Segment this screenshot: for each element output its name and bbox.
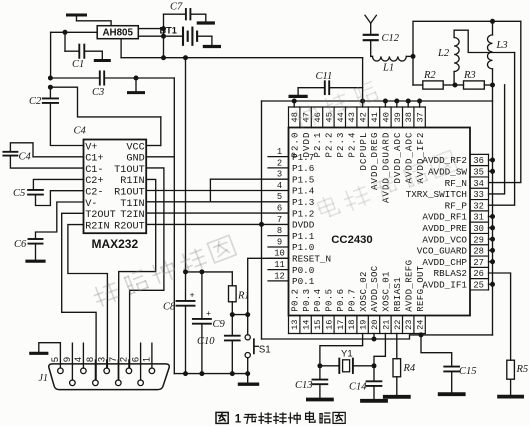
wire (BT1 node to rail) xyxy=(163,36,165,58)
svg-text:13: 13 xyxy=(290,320,300,330)
node (pin48 supply) xyxy=(292,99,297,104)
connector J1 (DB9) xyxy=(39,364,170,390)
svg-text:AVDD_CHP: AVDD_CHP xyxy=(422,257,467,268)
ground (C3) xyxy=(129,78,144,93)
svg-text:P0.2: P0.2 xyxy=(290,289,300,312)
svg-text:R5: R5 xyxy=(516,364,529,375)
svg-text:21: 21 xyxy=(381,320,391,330)
svg-text:17: 17 xyxy=(336,320,346,330)
svg-text:P2.4: P2.4 xyxy=(347,132,357,158)
svg-text:7: 7 xyxy=(277,215,282,225)
svg-text:2: 2 xyxy=(119,357,129,362)
svg-text:5: 5 xyxy=(50,357,60,362)
svg-text:BT1: BT1 xyxy=(160,25,177,35)
svg-text:CC2430: CC2430 xyxy=(331,234,372,246)
wire (R2IN to J1 pin3) xyxy=(68,225,108,368)
svg-text:DVDD_ADC: DVDD_ADC xyxy=(393,132,403,184)
svg-text:C1-: C1- xyxy=(85,165,103,176)
wire (VCC drop to C8 node) xyxy=(185,58,187,272)
wire (jog pin3-pin5) xyxy=(210,179,288,202)
svg-text:RESET_N: RESET_N xyxy=(292,254,331,265)
CC2430 right pin names xyxy=(406,155,468,290)
svg-text:38: 38 xyxy=(404,112,414,122)
svg-text:V-: V- xyxy=(85,199,97,210)
node (C8 top) xyxy=(183,269,188,274)
svg-text:T1IN: T1IN xyxy=(120,199,144,210)
svg-text:7: 7 xyxy=(108,357,118,362)
svg-text:C5: C5 xyxy=(13,188,25,199)
svg-text:14: 14 xyxy=(302,320,312,330)
wire (T2IN to P1.2) xyxy=(146,212,288,214)
node (pin28 bus) xyxy=(489,248,496,253)
capacitor C15 xyxy=(421,335,477,393)
svg-text:20: 20 xyxy=(370,320,380,330)
svg-text:AVDD_SOC: AVDD_SOC xyxy=(370,265,380,312)
svg-text:RBLAS2: RBLAS2 xyxy=(434,268,467,279)
svg-text:AH805: AH805 xyxy=(102,28,133,39)
svg-text:P1.3: P1.3 xyxy=(292,197,314,208)
svg-text:R4: R4 xyxy=(403,363,416,374)
svg-text:8: 8 xyxy=(85,357,95,362)
svg-text:P2.2: P2.2 xyxy=(325,132,335,158)
battery BT1 xyxy=(160,25,212,44)
svg-text:P2.3: P2.3 xyxy=(336,132,346,158)
J1 pin stubs and numbers xyxy=(50,343,152,380)
wire (R2OUT to DVDD pin) xyxy=(146,223,288,225)
svg-text:29: 29 xyxy=(473,235,484,245)
svg-text:C2-: C2- xyxy=(85,188,103,199)
CC2430 top pin cells (48-37) xyxy=(289,101,426,128)
wire (R1OUT to P1.4) xyxy=(146,190,288,192)
svg-text:43: 43 xyxy=(347,112,357,122)
svg-text:+: + xyxy=(190,290,195,300)
svg-text:C10: C10 xyxy=(197,336,215,347)
inductor L1 xyxy=(373,56,414,73)
node (pin31 bus) xyxy=(489,214,496,219)
resistor R1 xyxy=(229,272,250,315)
svg-text:P0.1: P0.1 xyxy=(292,276,315,287)
capacitor C7 xyxy=(164,2,206,20)
node (pin27 bus) xyxy=(489,259,496,264)
node (left net top) xyxy=(48,76,53,81)
wire (AH805 out lower) xyxy=(138,35,163,37)
svg-text:C9: C9 xyxy=(213,319,226,330)
node (L1 out) xyxy=(411,54,416,59)
svg-text:P1.4: P1.4 xyxy=(292,186,315,197)
IC U1 CC2430 body xyxy=(289,128,471,316)
ground (C1) xyxy=(95,51,109,60)
CC2430 left pin names xyxy=(292,152,331,287)
wire (ground rail) xyxy=(174,373,247,375)
svg-text:L2: L2 xyxy=(437,48,450,59)
capacitor C9 (electrolytic) xyxy=(193,272,226,374)
svg-text:C1+: C1+ xyxy=(85,154,103,165)
ground (J1) xyxy=(31,352,47,355)
node (pin20 tap) xyxy=(372,337,377,342)
CC2430 top pin names xyxy=(290,132,425,204)
node (pin42 supply) xyxy=(360,99,365,104)
svg-text:3: 3 xyxy=(97,357,107,362)
svg-text:R2: R2 xyxy=(423,70,436,81)
ground (BT1) xyxy=(204,36,219,46)
svg-text:37: 37 xyxy=(416,112,426,122)
svg-text:T2IN: T2IN xyxy=(120,210,144,221)
svg-text:9: 9 xyxy=(62,357,72,362)
antenna E1 xyxy=(365,15,376,35)
capacitor C4 xyxy=(3,143,83,168)
node (L3 top) xyxy=(490,19,495,24)
wire (T1IN to P1.3) xyxy=(146,201,288,203)
svg-text:J1: J1 xyxy=(39,373,48,384)
svg-text:XOSC_02: XOSC_02 xyxy=(359,271,369,312)
node (Y1 left) xyxy=(317,363,322,368)
resistor R3 xyxy=(463,70,493,89)
svg-text:R1IN: R1IN xyxy=(120,176,144,187)
ground (above AH805) xyxy=(68,15,86,21)
svg-text:11: 11 xyxy=(274,260,285,270)
svg-text:33: 33 xyxy=(473,190,484,200)
svg-text:2: 2 xyxy=(277,158,282,168)
watermark xyxy=(21,82,460,341)
wire (AH805 top pin to ground) xyxy=(77,21,112,26)
svg-text:9: 9 xyxy=(277,237,282,247)
wire (MAX232 GND to gnd drop) xyxy=(146,156,174,158)
node (C8 gnd) xyxy=(183,371,188,376)
wire (RF_N pin34) xyxy=(489,21,521,182)
resistor R4 xyxy=(393,334,416,396)
node (C9 gnd) xyxy=(199,371,204,376)
svg-text:30: 30 xyxy=(473,224,484,234)
resistor R5 xyxy=(507,360,528,395)
node (pin29 bus) xyxy=(489,237,496,242)
svg-text:P1.1: P1.1 xyxy=(292,231,315,242)
ground (C7) xyxy=(198,14,213,23)
wire (N1 up / top RF line) xyxy=(413,21,521,56)
node (pin36 bus) xyxy=(489,158,496,163)
svg-text:5: 5 xyxy=(277,192,282,202)
svg-text:36: 36 xyxy=(473,156,484,166)
svg-text:44: 44 xyxy=(336,112,346,122)
wire (R3 link) xyxy=(455,84,464,86)
svg-text:C2+: C2+ xyxy=(85,176,103,187)
capacitor C13 xyxy=(295,366,327,398)
capacitor C6 xyxy=(14,202,84,260)
wire (TXRX_SWITCH pin33) xyxy=(489,85,505,194)
wire (top pin supply line) xyxy=(262,100,493,102)
node (branch to VCC jog) xyxy=(48,85,53,90)
svg-text:P1.2: P1.2 xyxy=(292,208,314,219)
svg-text:C3: C3 xyxy=(92,87,104,98)
CC2430 left pin ladder (1-12) xyxy=(268,147,289,281)
wire (VCC jog) xyxy=(50,87,160,117)
ground (C13) xyxy=(308,398,332,402)
svg-text:AVDD_IF1: AVDD_IF1 xyxy=(422,280,467,291)
svg-text:18: 18 xyxy=(347,320,357,330)
wire (pin24 stub) xyxy=(420,334,421,335)
svg-text:VCC: VCC xyxy=(126,142,144,153)
svg-text:P0.3: P0.3 xyxy=(302,289,312,312)
wire (RF_P pin32) xyxy=(489,53,515,206)
CC2430 bottom pin cells (13-24) xyxy=(289,316,426,334)
svg-text:31: 31 xyxy=(473,213,484,223)
wire (RESET_N) xyxy=(248,258,289,314)
wire (GND drop right of MAX232) xyxy=(173,78,175,374)
svg-text:26: 26 xyxy=(473,269,484,279)
node (C9 top) xyxy=(199,269,204,274)
wire (AH805 out upper) xyxy=(138,28,163,30)
svg-text:C11: C11 xyxy=(316,71,333,82)
svg-text:MAX232: MAX232 xyxy=(91,237,138,251)
svg-text:6: 6 xyxy=(277,204,282,214)
ground (R4) xyxy=(385,395,409,399)
wire (R1 to reset line) xyxy=(232,312,250,317)
capacitor C3 xyxy=(92,71,174,98)
svg-text:S1: S1 xyxy=(259,344,271,355)
wire (bottom supply line) xyxy=(262,335,422,339)
inductor L2 xyxy=(437,30,515,85)
svg-text:1: 1 xyxy=(235,414,242,426)
ground (R5) xyxy=(499,395,522,399)
wire (T1OUT to J1 pin2) xyxy=(130,168,164,367)
IC U3 MAX232 xyxy=(74,126,147,251)
svg-text:C14: C14 xyxy=(349,382,367,393)
svg-text:AVDD_VCO: AVDD_VCO xyxy=(422,234,467,245)
svg-text:P1.0: P1.0 xyxy=(292,242,314,253)
wire (C8 node line) xyxy=(186,271,233,273)
svg-text:R1OUT: R1OUT xyxy=(114,188,145,199)
wire (pin20 stub) xyxy=(373,334,375,340)
svg-text:16: 16 xyxy=(324,320,334,330)
svg-text:25: 25 xyxy=(473,281,484,291)
crystal Y1 xyxy=(320,349,374,373)
svg-text:34: 34 xyxy=(473,179,484,189)
svg-text:15: 15 xyxy=(313,320,323,330)
svg-text:4: 4 xyxy=(73,357,83,362)
node (AH805 left / C1 tap) xyxy=(63,30,68,35)
svg-text:1: 1 xyxy=(142,357,152,362)
svg-text:AVDD_PRE: AVDD_PRE xyxy=(422,223,467,234)
node (R3/L3/bus) xyxy=(490,83,495,88)
svg-text:12: 12 xyxy=(274,271,285,281)
svg-text:AVDD_DGUARD: AVDD_DGUARD xyxy=(382,132,392,204)
node (Y1 right) xyxy=(372,363,377,368)
svg-text:VCO_GUARD: VCO_GUARD xyxy=(417,246,468,257)
svg-text:19: 19 xyxy=(359,320,369,330)
wire (left supply bus) xyxy=(261,101,263,339)
svg-text:P0.6: P0.6 xyxy=(336,289,346,312)
node (DVDD bus tap pin7) xyxy=(259,222,264,227)
capacitor C12 xyxy=(364,33,400,56)
svg-text:P0.0: P0.0 xyxy=(292,265,314,276)
svg-text:RF_P: RF_P xyxy=(445,200,468,211)
node (rail end) xyxy=(245,371,250,376)
wire (C2/C3 node line) xyxy=(50,77,99,79)
svg-text:23: 23 xyxy=(404,320,414,330)
svg-text:40: 40 xyxy=(381,112,391,122)
resistor R2 xyxy=(423,70,455,89)
svg-text:C12: C12 xyxy=(382,33,400,44)
svg-text:R2OUT: R2OUT xyxy=(114,221,145,232)
svg-text:3: 3 xyxy=(277,170,282,180)
node (C10 gnd) xyxy=(230,371,235,376)
capacitor C2 xyxy=(29,87,84,145)
svg-text:8: 8 xyxy=(277,226,282,236)
svg-text:C4: C4 xyxy=(74,126,87,137)
svg-text:32: 32 xyxy=(473,201,484,211)
svg-text:T1OUT: T1OUT xyxy=(114,165,145,176)
svg-text:22: 22 xyxy=(393,320,403,330)
ground (C11) xyxy=(290,95,306,98)
capacitor C11 xyxy=(298,71,363,95)
CC2430 bottom pin names xyxy=(290,260,425,312)
switch S1 xyxy=(245,315,271,374)
wire (R1IN to J1 pin7) xyxy=(119,179,156,379)
svg-text:T2OUT: T2OUT xyxy=(85,210,116,221)
wire (N1 down to R2) xyxy=(413,56,423,85)
svg-text:GND: GND xyxy=(126,154,144,165)
svg-text:1: 1 xyxy=(277,147,282,157)
svg-text:C1: C1 xyxy=(72,59,84,70)
svg-text:R3: R3 xyxy=(463,70,476,81)
svg-text:42: 42 xyxy=(359,112,369,122)
svg-text:P1.5: P1.5 xyxy=(292,174,314,185)
svg-text:P0.7: P0.7 xyxy=(347,289,357,312)
capacitor C14 xyxy=(349,366,381,399)
svg-text:P0.4: P0.4 xyxy=(313,289,323,312)
ground (rail) xyxy=(240,374,258,385)
node (VCC to C8 branch) xyxy=(183,55,188,60)
wire (RBLAS2 pin26 to R5) xyxy=(489,273,511,360)
node (rail tie) xyxy=(161,55,166,60)
svg-text:C13: C13 xyxy=(295,380,313,391)
wire (C7/BT1 tie) xyxy=(163,14,165,36)
svg-text:41: 41 xyxy=(370,112,380,122)
wire (XOSC_02 to crystal) xyxy=(320,334,363,363)
node (pin39 supply) xyxy=(394,99,399,104)
inductor L3 xyxy=(488,21,508,85)
ground (C6) xyxy=(27,260,44,263)
ground (C14) xyxy=(362,399,386,403)
node (C3 ground tap) xyxy=(134,76,139,81)
svg-text:C15: C15 xyxy=(459,366,477,377)
svg-text:27: 27 xyxy=(473,258,484,268)
svg-text:AVDD_REFG: AVDD_REFG xyxy=(404,260,414,312)
node (pin35 bus) xyxy=(489,169,496,174)
node (R2/R3/L2) xyxy=(453,83,458,88)
svg-text:V+: V+ xyxy=(85,142,97,153)
CC2430 right pin cells (36-25) xyxy=(470,154,489,290)
svg-text:10: 10 xyxy=(274,249,285,259)
caption text (Figure 1 wireless module circuit) xyxy=(216,412,345,426)
wire (VCC rail) xyxy=(121,39,363,101)
svg-text:28: 28 xyxy=(473,247,484,257)
svg-text:P2.1: P2.1 xyxy=(313,132,323,158)
svg-text:+: + xyxy=(206,308,211,318)
svg-text:C4: C4 xyxy=(19,152,32,163)
wire (XOSC_01 to crystal) xyxy=(374,334,385,363)
svg-text:XOSC_01: XOSC_01 xyxy=(382,271,392,312)
node (upper tie) xyxy=(161,26,166,31)
svg-text:35: 35 xyxy=(473,168,484,178)
svg-text:R2IN: R2IN xyxy=(85,221,109,232)
ground (C15) xyxy=(440,392,464,396)
wire (AH805 left pin) xyxy=(51,32,98,78)
node (pin25 bus) xyxy=(489,282,496,287)
svg-text:6: 6 xyxy=(130,357,140,362)
svg-text:24: 24 xyxy=(416,320,426,330)
svg-text:4: 4 xyxy=(277,181,282,191)
capacitor C5 xyxy=(13,179,84,205)
svg-text:RBIAS1: RBIAS1 xyxy=(393,277,403,312)
node (pin40 supply) xyxy=(383,99,388,104)
svg-text:C6: C6 xyxy=(14,239,27,250)
node (R1 bottom) xyxy=(230,312,235,317)
node (pin38 supply) xyxy=(406,99,411,104)
wire (J1 pin5 to ground) xyxy=(39,343,61,368)
svg-text:39: 39 xyxy=(393,112,403,122)
wire (VCC to MAX232 pin) xyxy=(146,117,161,146)
svg-text:DVDD: DVDD xyxy=(292,220,315,231)
svg-text:RF_N: RF_N xyxy=(445,178,467,189)
regulator U2 AH805 xyxy=(97,26,138,39)
wire (T2OUT to J1 pin8) xyxy=(62,213,96,379)
svg-text:Y1: Y1 xyxy=(341,349,353,360)
svg-text:C8: C8 xyxy=(163,302,176,313)
svg-text:L1: L1 xyxy=(382,63,394,74)
svg-text:L3: L3 xyxy=(496,40,508,51)
capacitor C10 xyxy=(197,315,240,374)
svg-text:C2: C2 xyxy=(29,96,42,107)
node (pin30 bus) xyxy=(489,225,496,230)
svg-text:P1.6: P1.6 xyxy=(292,163,314,174)
svg-text:P0.5: P0.5 xyxy=(325,289,335,312)
svg-text:AVDD_RF1: AVDD_RF1 xyxy=(422,212,467,223)
node (pin37 supply) xyxy=(417,99,422,104)
svg-text:TXRX_SWITCH: TXRX_SWITCH xyxy=(406,189,467,200)
capacitor C8 (electrolytic) xyxy=(163,272,195,374)
wire (bus right bottom) xyxy=(421,334,493,336)
svg-text:DCPUPL: DCPUPL xyxy=(359,132,369,171)
node (lower tie) xyxy=(161,34,166,39)
svg-text:C7: C7 xyxy=(170,2,183,13)
node (REFG corner) xyxy=(419,332,424,337)
capacitor C1 xyxy=(65,32,102,70)
wire (AVDD bus right) xyxy=(492,85,494,335)
svg-text:P1.7: P1.7 xyxy=(292,152,314,163)
